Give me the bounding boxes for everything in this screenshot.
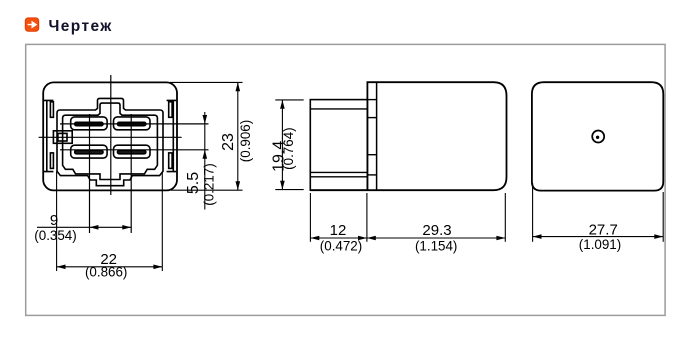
connector side outline xyxy=(310,100,367,191)
relay top outline xyxy=(532,82,663,190)
blade bottom-left xyxy=(75,150,103,153)
svg-text:(1.091): (1.091) xyxy=(579,237,621,252)
column centerline right xyxy=(130,114,132,233)
slot top-left xyxy=(71,117,107,130)
key square inner xyxy=(58,133,67,141)
clip rail left xyxy=(44,100,53,171)
base flange line xyxy=(376,82,378,190)
connector inner outline xyxy=(63,103,158,179)
connector outer outline xyxy=(57,98,163,185)
clip window bottom-right xyxy=(169,153,172,169)
dimension 12 (0.472) and 29.3 (1.154) xyxy=(310,193,505,242)
svg-text:(1.154): (1.154) xyxy=(415,239,457,254)
svg-text:5.5: 5.5 xyxy=(185,172,202,194)
key square outer xyxy=(53,131,72,144)
connector bottom lines xyxy=(310,171,367,173)
blade top-left xyxy=(75,122,103,125)
dimension 22 (0.866) xyxy=(57,172,163,272)
clip window top-left xyxy=(50,102,53,118)
dimension 27.7 (1.091) xyxy=(533,183,664,242)
clip window bottom-left xyxy=(50,153,53,169)
slot bottom-left xyxy=(71,145,107,158)
svg-text:(0.217): (0.217) xyxy=(202,163,217,205)
svg-text:(0.866): (0.866) xyxy=(85,265,127,280)
clip window top-right xyxy=(169,102,172,118)
dimension 5.5 (0.217) xyxy=(203,112,208,210)
row centerline top xyxy=(60,123,209,125)
clip rail right xyxy=(167,100,177,171)
relay body outline xyxy=(43,82,177,190)
horizontal centerline xyxy=(39,136,182,138)
connector top inner line xyxy=(310,108,367,110)
dimension 19.4 (0.764) xyxy=(275,100,303,190)
svg-text:(0.764): (0.764) xyxy=(281,127,296,169)
center boss dot xyxy=(596,136,599,139)
svg-text:(0.472): (0.472) xyxy=(320,239,362,254)
slot top-right xyxy=(114,117,151,130)
column centerline left xyxy=(89,114,91,233)
flange tick lines xyxy=(367,99,376,101)
blade bottom-right xyxy=(118,150,146,153)
center boss circle xyxy=(592,131,604,143)
vertical centerline xyxy=(110,75,112,195)
header icon orange arrow bullet xyxy=(25,18,38,31)
row centerline bottom xyxy=(60,149,209,151)
slot bottom-right xyxy=(114,145,151,158)
outer frame xyxy=(26,44,665,315)
svg-text:29.3: 29.3 xyxy=(422,222,451,239)
svg-text:27.7: 27.7 xyxy=(589,221,618,238)
dimension 23 (0.906) xyxy=(170,82,243,190)
dimension 9 (0.354) xyxy=(37,225,131,230)
svg-text:Чертеж: Чертеж xyxy=(49,18,113,35)
svg-text:(0.906): (0.906) xyxy=(238,120,253,162)
svg-text:23: 23 xyxy=(220,133,237,151)
svg-text:(0.354): (0.354) xyxy=(34,228,76,243)
svg-text:12: 12 xyxy=(330,222,347,239)
blade top-right xyxy=(118,122,146,125)
relay body side outline xyxy=(310,82,506,190)
